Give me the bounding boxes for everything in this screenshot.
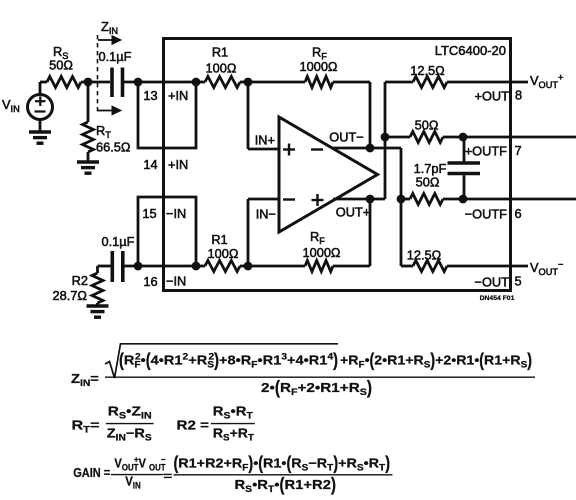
svg-text:V: V	[114, 456, 121, 471]
svg-text:IN: IN	[133, 480, 141, 491]
svg-text:R: R	[108, 405, 120, 420]
svg-text:4•R1: 4•R1	[151, 352, 183, 367]
svg-text:R1+R: R1+R	[484, 353, 521, 367]
svg-text:): )	[367, 377, 372, 398]
svg-text:12.5Ω: 12.5Ω	[410, 63, 445, 78]
svg-text:R: R	[280, 381, 291, 396]
svg-text:•R: •R	[252, 477, 268, 492]
svg-text:•R: •R	[230, 403, 246, 418]
svg-text:+R: +R	[188, 352, 207, 367]
svg-text:+OUT: +OUT	[475, 89, 510, 104]
svg-text:T: T	[246, 411, 252, 421]
svg-text:12.5Ω: 12.5Ω	[407, 248, 442, 263]
svg-text:•R: •R	[364, 456, 380, 470]
svg-text:R2 =: R2 =	[177, 418, 209, 433]
svg-text:R1: R1	[211, 232, 227, 247]
svg-text:−R: −R	[308, 456, 327, 470]
svg-text:R: R	[312, 45, 321, 60]
svg-text:−R: −R	[126, 425, 145, 440]
svg-text:−IN: −IN	[166, 274, 186, 289]
svg-text:−OUT: −OUT	[475, 275, 510, 290]
svg-text:+R: +R	[230, 426, 249, 440]
svg-text:2•R1+R: 2•R1+R	[374, 353, 424, 367]
svg-text:+4•R1: +4•R1	[287, 352, 328, 367]
svg-text:R1•: R1•	[263, 456, 287, 470]
svg-text:IN: IN	[109, 26, 118, 36]
svg-text:−: −	[558, 259, 563, 269]
svg-text:IN−: IN−	[256, 207, 276, 222]
svg-text:IN: IN	[141, 411, 152, 421]
svg-text:15: 15	[142, 206, 156, 221]
svg-text:): )	[527, 350, 532, 370]
svg-text:GAIN =: GAIN =	[73, 465, 110, 480]
svg-text:50Ω: 50Ω	[415, 118, 439, 133]
svg-text:+R: +R	[338, 456, 357, 470]
svg-text:16: 16	[143, 274, 157, 289]
svg-text:OUT−: OUT−	[329, 130, 364, 145]
svg-text:1000Ω: 1000Ω	[299, 59, 337, 74]
svg-text:+R: +R	[340, 353, 359, 367]
svg-text:=: =	[90, 371, 99, 386]
svg-text:28.7Ω: 28.7Ω	[53, 288, 88, 303]
svg-text:+: +	[558, 72, 563, 82]
svg-text:+2•R1•: +2•R1•	[435, 353, 479, 367]
svg-text:7: 7	[514, 143, 521, 158]
svg-text:=: =	[90, 419, 99, 433]
svg-text:OUT: OUT	[539, 80, 559, 90]
svg-text:6: 6	[514, 206, 521, 221]
svg-text:2•: 2•	[261, 381, 275, 396]
svg-text:R: R	[213, 426, 223, 440]
svg-text:R1+R2+R: R1+R2+R	[178, 456, 242, 470]
svg-text:R: R	[310, 229, 319, 244]
svg-text:OUT: OUT	[539, 267, 559, 277]
svg-text:+IN: +IN	[168, 157, 188, 172]
svg-text:14: 14	[143, 157, 157, 172]
svg-text:50Ω: 50Ω	[416, 175, 440, 190]
svg-text:T: T	[105, 130, 111, 140]
svg-text:•R1: •R1	[258, 352, 282, 367]
svg-text:R: R	[124, 352, 135, 367]
svg-text:S: S	[145, 433, 152, 443]
svg-text:LTC6400-20: LTC6400-20	[435, 43, 506, 58]
svg-text:R: R	[96, 123, 105, 138]
svg-text:R2: R2	[72, 273, 88, 288]
svg-text:0.1µF: 0.1µF	[102, 234, 135, 249]
svg-text:): )	[385, 452, 390, 473]
svg-text:−: −	[161, 454, 166, 465]
svg-text:R1: R1	[212, 45, 228, 60]
svg-text:R: R	[234, 477, 245, 492]
svg-text:−OUTF: −OUTF	[465, 207, 507, 222]
svg-text:IN: IN	[116, 433, 126, 443]
svg-text:IN+: IN+	[255, 133, 275, 148]
svg-text:+IN: +IN	[168, 88, 188, 103]
svg-text:+8•R: +8•R	[219, 352, 251, 367]
svg-text:66.5Ω: 66.5Ω	[96, 140, 131, 155]
svg-text:−IN: −IN	[166, 206, 186, 221]
svg-text:8: 8	[515, 88, 522, 103]
svg-text:•Z: •Z	[126, 405, 141, 420]
svg-text:50Ω: 50Ω	[49, 58, 73, 73]
svg-text:IN: IN	[80, 379, 90, 389]
svg-text:R: R	[291, 456, 301, 470]
svg-text:T: T	[248, 433, 254, 444]
svg-text:): )	[331, 474, 336, 495]
svg-text:1000Ω: 1000Ω	[302, 245, 340, 260]
svg-text:OUT+: OUT+	[336, 205, 371, 220]
svg-text:R: R	[72, 419, 84, 433]
svg-text:R: R	[213, 403, 224, 418]
svg-text:+OUTF: +OUTF	[465, 144, 507, 159]
svg-text:5: 5	[514, 274, 521, 289]
svg-text:100Ω: 100Ω	[206, 61, 237, 76]
svg-text:Z: Z	[101, 19, 109, 34]
svg-text:13: 13	[143, 88, 157, 103]
svg-text:V: V	[138, 456, 145, 471]
svg-text:DN454 F01: DN454 F01	[480, 295, 515, 302]
svg-text:100Ω: 100Ω	[208, 246, 239, 261]
svg-text:): )	[333, 349, 338, 370]
svg-text:IN: IN	[11, 104, 20, 114]
svg-text:0.1µF: 0.1µF	[99, 49, 132, 64]
svg-text:+2•R1+R: +2•R1+R	[298, 381, 360, 396]
svg-text:R1+R2: R1+R2	[284, 477, 331, 492]
